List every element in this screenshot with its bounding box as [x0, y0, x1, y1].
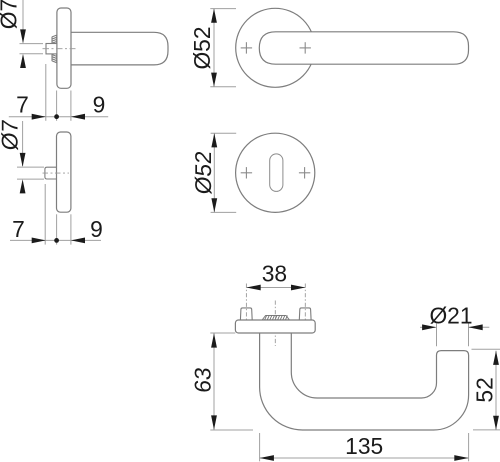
svg-text:Ø7: Ø7 [0, 118, 22, 151]
svg-text:9: 9 [93, 91, 106, 117]
svg-text:135: 135 [345, 433, 383, 459]
svg-text:38: 38 [262, 260, 287, 286]
svg-text:Ø52: Ø52 [189, 26, 215, 69]
svg-text:Ø21: Ø21 [429, 303, 472, 329]
svg-text:9: 9 [90, 216, 103, 242]
svg-text:Ø52: Ø52 [190, 150, 216, 196]
svg-text:Ø7: Ø7 [0, 0, 22, 29]
svg-text:63: 63 [190, 366, 216, 394]
svg-text:7: 7 [12, 216, 25, 242]
svg-text:7: 7 [16, 91, 29, 117]
svg-text:52: 52 [472, 377, 498, 402]
